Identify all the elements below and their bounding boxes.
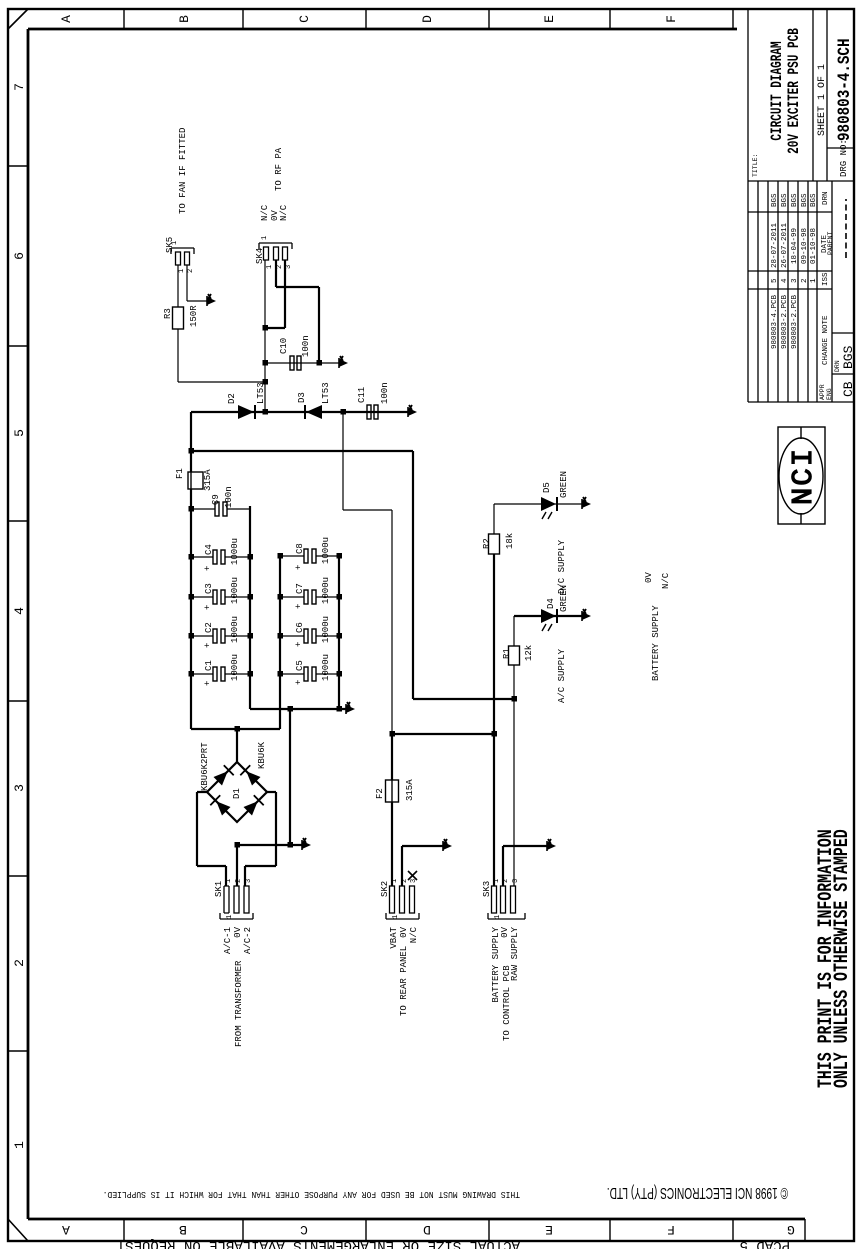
svg-text:+: + — [203, 643, 213, 648]
svg-text:PARENT: PARENT — [827, 231, 834, 255]
svg-text:2: 2 — [502, 879, 510, 883]
svg-text:E: E — [542, 15, 557, 23]
svg-text:BATTERY SUPPLY: BATTERY SUPPLY — [651, 605, 661, 681]
svg-text:2: 2 — [401, 879, 409, 883]
connector SK1 — [220, 886, 253, 919]
svg-text:+: + — [203, 681, 213, 686]
svg-text:SHEET 1 OF 1: SHEET 1 OF 1 — [817, 64, 828, 136]
svg-text:ENG: ENG — [826, 388, 833, 400]
svg-text:3: 3 — [791, 278, 799, 283]
junction +V rail at C4 — [189, 554, 195, 560]
connector SK5 — [171, 248, 194, 265]
svg-text:1: 1 — [391, 879, 399, 883]
svg-text:C3: C3 — [204, 583, 214, 594]
svg-text:315A: 315A — [405, 779, 415, 801]
svg-text:C5: C5 — [295, 660, 305, 671]
svg-text:315A: 315A — [203, 469, 213, 491]
svg-text:1000u: 1000u — [230, 538, 240, 565]
svg-text:1: 1 — [171, 241, 179, 245]
svg-text:1: 1 — [494, 915, 502, 919]
wire bridge diamond — [207, 762, 267, 822]
capacitor C8 — [304, 549, 316, 563]
junction bank2 0V rail at C6 — [337, 633, 343, 639]
svg-text:09-10-98: 09-10-98 — [801, 228, 809, 264]
junction VBAT line branch — [390, 731, 396, 737]
svg-text:1: 1 — [261, 236, 269, 240]
svg-text:C: C — [297, 15, 312, 23]
svg-text:3: 3 — [245, 879, 253, 883]
junction SK4 pin1 pin3 — [263, 325, 269, 331]
svg-text:2: 2 — [801, 278, 809, 283]
svg-text:12k: 12k — [524, 645, 534, 661]
svg-text:SK2: SK2 — [380, 881, 390, 897]
svg-text:1: 1 — [266, 265, 274, 269]
svg-text:3: 3 — [12, 784, 27, 792]
junction +V rail at C9 — [189, 506, 195, 512]
diode D3 (up) — [305, 405, 322, 419]
wires: thin — [178, 260, 582, 886]
svg-text:BATTERY SUPPLY: BATTERY SUPPLY — [491, 926, 501, 1002]
svg-text:KBU6K: KBU6K — [257, 741, 267, 769]
svg-text:2: 2 — [187, 269, 195, 273]
svg-text:01-10-98: 01-10-98 — [810, 228, 818, 264]
wire sk1 pin2 — [236, 845, 238, 886]
bridge D1 diode bottom-left — [244, 801, 258, 815]
junction bank2 +V rail at C6 — [278, 633, 284, 639]
0V power arrow at SK3 pin2 — [547, 839, 556, 851]
svg-text:G: G — [787, 1222, 795, 1237]
svg-text:SK3: SK3 — [482, 881, 492, 897]
junction D2 D3 node — [263, 409, 269, 415]
junction battery supply at R2 — [492, 731, 498, 737]
svg-text:F1: F1 — [175, 468, 185, 479]
svg-text:A/C-2: A/C-2 — [243, 927, 253, 954]
svg-text:+: + — [294, 604, 304, 609]
connector SK2 — [386, 886, 419, 919]
svg-text:GREEN: GREEN — [559, 471, 569, 498]
junction bridge minus to 0V link — [288, 842, 294, 848]
svg-text:+: + — [294, 680, 304, 685]
wire R1 bottom row to SK3 pin3 — [513, 616, 515, 886]
svg-text:A: A — [62, 1222, 70, 1237]
capacitor C3 — [213, 590, 225, 604]
svg-text:1: 1 — [493, 879, 501, 883]
svg-text:0V: 0V — [500, 926, 510, 937]
junction bank2 +V rail at C5 — [278, 671, 284, 677]
title block frame — [748, 9, 854, 402]
svg-text:ISS: ISS — [822, 272, 830, 286]
svg-text:SK1: SK1 — [214, 881, 224, 897]
resistor R1 — [509, 646, 520, 665]
wire sk4 pin2 — [276, 260, 319, 363]
svg-text:D3: D3 — [297, 392, 307, 403]
junction +V rail at C1 — [189, 671, 195, 677]
capacitor C6 — [304, 629, 316, 643]
LED D5 (down) — [541, 497, 557, 519]
svg-text:BGS: BGS — [781, 193, 789, 207]
0V power arrow at SK2 pin2 — [443, 839, 452, 851]
svg-text:C11: C11 — [357, 387, 367, 403]
svg-text:4: 4 — [781, 278, 789, 283]
junction C10 bottom — [317, 360, 323, 366]
junction +V rail at C2 — [189, 633, 195, 639]
junction bank2 +V rail at C8 — [278, 553, 284, 559]
diode D2 (down) — [238, 405, 255, 419]
svg-text:NCI: NCI — [787, 447, 820, 505]
schematic labels — [163, 128, 671, 897]
svg-text:1000u: 1000u — [321, 654, 331, 681]
margin texts left — [103, 1189, 520, 1200]
wire R3 drop — [178, 381, 265, 383]
bridge D1 diode top-left — [216, 801, 230, 815]
wire battery feed thick — [391, 734, 393, 886]
capacitor C4 — [213, 550, 225, 564]
svg-text:C1: C1 — [204, 660, 214, 671]
junction 0V drop minus link — [288, 706, 294, 712]
svg-text:TO RF PA: TO RF PA — [274, 147, 284, 191]
svg-text:C: C — [300, 1222, 308, 1237]
svg-text:TITLE:: TITLE: — [752, 154, 759, 177]
wire sk3 pin1 R2 row — [493, 554, 495, 886]
wire cap leads C5-C8 — [280, 556, 339, 674]
svg-text:PCAD 5: PCAD 5 — [740, 1237, 790, 1249]
svg-text:LT53: LT53 — [256, 382, 266, 404]
fuse F2 — [386, 780, 399, 802]
bridge D1 cathode bars — [210, 765, 263, 805]
0V power arrow at D5 — [582, 497, 591, 509]
svg-text:18-04-99: 18-04-99 — [791, 228, 799, 264]
connector SK4 — [259, 243, 292, 260]
NCI logo — [778, 427, 825, 524]
junction 0V rail at C1 — [248, 671, 254, 677]
zone letters right — [59, 15, 679, 23]
svg-text:980803-2.PCB: 980803-2.PCB — [781, 294, 789, 349]
svg-text:DRN: DRN — [822, 191, 830, 205]
svg-text:1: 1 — [178, 269, 186, 273]
wire rail corner to bridge + — [236, 729, 238, 762]
svg-text:SK4: SK4 — [255, 248, 265, 264]
wire R2 top lead to D5 — [494, 504, 582, 534]
svg-text:FROM TRANSFORMER: FROM TRANSFORMER — [234, 960, 244, 1047]
svg-text:C8: C8 — [295, 543, 305, 554]
svg-text:LT53: LT53 — [321, 382, 331, 404]
svg-text:1000u: 1000u — [321, 537, 331, 564]
svg-text:1: 1 — [810, 278, 818, 283]
svg-text:0V: 0V — [233, 926, 243, 937]
svg-text:C7: C7 — [295, 583, 305, 594]
svg-text:1: 1 — [226, 915, 234, 919]
svg-text:TO REAR PANEL: TO REAR PANEL — [399, 946, 409, 1016]
svg-text:C2: C2 — [204, 622, 214, 633]
svg-text:980803-2.PCB: 980803-2.PCB — [791, 294, 799, 349]
svg-text:DRG NO:: DRG NO: — [839, 139, 849, 177]
wire cap leads C1-C4 C9 — [191, 509, 250, 674]
svg-text:100n: 100n — [380, 382, 390, 404]
svg-text:BGS: BGS — [810, 193, 818, 207]
capacitor C5 — [304, 667, 316, 681]
svg-text:+: + — [203, 605, 213, 610]
svg-text:+: + — [203, 566, 213, 571]
wire sk4 pin3 — [266, 260, 285, 328]
svg-text:VBAT: VBAT — [389, 926, 399, 948]
wire bridge minus column — [237, 844, 302, 846]
svg-text:D2: D2 — [227, 393, 237, 404]
svg-text:20V EXCITER PSU PCB: 20V EXCITER PSU PCB — [786, 28, 803, 154]
wire bridge ac2 path — [245, 792, 276, 886]
wire sk5 pin1 R3 — [177, 265, 179, 382]
junction 0V rail at C4 — [248, 554, 254, 560]
0V power arrow at SK5 pin2 — [207, 294, 216, 306]
svg-text:+: + — [294, 565, 304, 570]
junction R3 to SK4 node — [263, 379, 269, 385]
svg-text:KBU6K2PRT: KBU6K2PRT — [200, 742, 210, 791]
capacitor C1 — [213, 667, 225, 681]
svg-text:2: 2 — [12, 959, 27, 967]
svg-text:BGS: BGS — [801, 193, 809, 207]
no-connect X on SK2 pin3 — [408, 871, 417, 880]
wire minus link — [289, 709, 291, 845]
svg-text:D: D — [423, 1222, 431, 1237]
svg-text:6: 6 — [12, 252, 27, 260]
svg-text:N/C: N/C — [409, 926, 419, 943]
capacitor C2 — [213, 629, 225, 643]
0V power arrow at cap bank rail — [346, 702, 355, 714]
svg-text:CB: CB — [841, 381, 856, 397]
junction raw supply at R1 — [512, 696, 518, 702]
wire sk2 pin2 stub — [402, 846, 443, 886]
svg-text:R2: R2 — [482, 538, 492, 549]
svg-text:18k: 18k — [505, 533, 515, 549]
wire main +V rail — [190, 412, 192, 729]
resistor R3 — [173, 307, 184, 329]
svg-text:3: 3 — [285, 265, 293, 269]
svg-text:B: B — [177, 15, 192, 23]
svg-text:5: 5 — [12, 429, 27, 437]
svg-text:1000u: 1000u — [230, 616, 240, 643]
svg-text:APPR: APPR — [819, 384, 826, 400]
fuse F1 — [188, 472, 203, 489]
junction +V rail to bridge — [235, 726, 241, 732]
wire bank1 bottom rail — [249, 506, 251, 709]
title block text — [771, 191, 830, 365]
junction bridge minus node — [235, 842, 241, 848]
wire R1 thick feed — [191, 451, 514, 699]
0V power arrow at bridge minus — [302, 838, 311, 850]
wire D4 drop — [514, 615, 582, 617]
wire bank2 bottom rail — [338, 556, 340, 709]
svg-text:BGS: BGS — [791, 193, 799, 207]
svg-text:1000u: 1000u — [230, 654, 240, 681]
svg-text:4: 4 — [12, 607, 27, 615]
svg-text:D1: D1 — [232, 788, 242, 799]
svg-text:980803-4.PCB: 980803-4.PCB — [771, 294, 779, 349]
svg-text:D/C SUPPLY: D/C SUPPLY — [557, 539, 567, 594]
svg-text:ACTUAL SIZE OR ENLARGEMENTS AV: ACTUAL SIZE OR ENLARGEMENTS AVAILABLE ON… — [117, 1237, 520, 1249]
svg-text:2: 2 — [235, 879, 243, 883]
svg-text:100n: 100n — [224, 486, 234, 508]
bridge D1 diode top-right — [214, 771, 228, 785]
svg-text:N/C: N/C — [279, 204, 289, 221]
svg-text:0V: 0V — [399, 926, 409, 937]
junction +V rail feed to R1 — [189, 448, 195, 454]
0V power arrow at C11 — [408, 405, 417, 417]
bridge D1 diode bottom-right — [246, 771, 260, 785]
svg-text:C10: C10 — [279, 338, 289, 354]
svg-text:CIRCUIT DIAGRAM: CIRCUIT DIAGRAM — [769, 41, 786, 140]
svg-text:F: F — [667, 1222, 675, 1237]
svg-text:980803-4.SCH: 980803-4.SCH — [833, 38, 854, 141]
wire bank1 bottom drop — [250, 708, 346, 710]
svg-text:© 1998 NCI ELECTRONICS (PTY): © 1998 NCI ELECTRONICS (PTY) LTD. — [607, 1184, 788, 1202]
resistor R2 — [489, 534, 500, 554]
wire bridge ac1 path — [197, 792, 226, 886]
wire C10 — [265, 362, 319, 364]
svg-text:3: 3 — [512, 879, 520, 883]
capacitor C9 — [215, 502, 227, 516]
svg-text:C4: C4 — [204, 544, 214, 555]
svg-text:A/C SUPPLY: A/C SUPPLY — [557, 648, 567, 703]
svg-text:TO FAN IF FITTED: TO FAN IF FITTED — [178, 128, 188, 214]
wire rail to bank2 top — [191, 556, 280, 729]
junction +V rail at C3 — [189, 594, 195, 600]
junction 0V drop at bank2 rail — [337, 706, 343, 712]
svg-text:R1: R1 — [502, 648, 512, 659]
connector SK3 — [488, 886, 525, 919]
wire sk4 pin1 node row — [264, 260, 266, 413]
svg-text:28-07-2011: 28-07-2011 — [771, 222, 779, 268]
svg-text:3: 3 — [410, 879, 418, 883]
svg-text:1: 1 — [12, 1141, 27, 1149]
junction C10 top — [263, 360, 269, 366]
svg-text:2: 2 — [276, 265, 284, 269]
svg-text:100n: 100n — [301, 335, 311, 357]
svg-text:+: + — [294, 642, 304, 647]
junction bank2 0V rail at C8 — [337, 553, 343, 559]
0V power arrow at C10 — [339, 356, 348, 368]
junction bank2 0V rail at C7 — [337, 594, 343, 600]
zone numbers top — [12, 83, 27, 1149]
wires: main thick — [191, 260, 582, 886]
svg-text:C9: C9 — [211, 494, 221, 505]
svg-text:BGS: BGS — [771, 193, 779, 207]
wire sk3 pin2 stub — [503, 846, 547, 886]
svg-text:D4: D4 — [546, 598, 556, 609]
0V power arrow at D4 — [582, 609, 591, 621]
zone letters left (rotated) — [62, 1222, 795, 1237]
capacitor C10 — [290, 356, 301, 370]
svg-text:F2: F2 — [375, 788, 385, 799]
svg-text:CHANGE NOTE: CHANGE NOTE — [822, 315, 830, 365]
wire battery feed from D3 node (thin staircase) — [343, 412, 392, 734]
svg-text:5: 5 — [771, 278, 779, 283]
svg-text:BGS: BGS — [841, 345, 856, 369]
wire sk5 pin2 stub — [187, 265, 207, 301]
LED D4 (down) — [541, 609, 557, 631]
capacitor C7 — [304, 590, 316, 604]
svg-text:1000u: 1000u — [321, 577, 331, 604]
svg-text:1000u: 1000u — [321, 616, 331, 643]
wire x515 branch — [392, 733, 494, 735]
svg-text:26-07-2011: 26-07-2011 — [781, 222, 789, 268]
svg-text:7: 7 — [12, 83, 27, 91]
svg-text:THIS DRAWING MUST NOT BE USED: THIS DRAWING MUST NOT BE USED FOR ANY PU… — [103, 1189, 520, 1200]
svg-text:D: D — [420, 15, 435, 23]
wire C10 0V stub — [319, 362, 339, 364]
svg-text:1: 1 — [392, 915, 400, 919]
junction 0V rail at C2 — [248, 633, 254, 639]
wire D2 D3 C11 column — [191, 411, 408, 413]
svg-text:R3: R3 — [163, 308, 173, 319]
svg-text:1000u: 1000u — [230, 577, 240, 604]
svg-text:F: F — [664, 15, 679, 23]
svg-text:N/C: N/C — [661, 572, 671, 589]
junction 0V rail at C3 — [248, 594, 254, 600]
capacitor C11 — [367, 405, 378, 419]
svg-text:0V: 0V — [644, 572, 654, 583]
svg-text:A: A — [59, 15, 74, 23]
svg-text:C6: C6 — [295, 622, 305, 633]
junction bank2 +V rail at C7 — [278, 594, 284, 600]
svg-text:TO CONTROL PCB: TO CONTROL PCB — [502, 965, 512, 1041]
wire R1 dot link — [413, 698, 514, 700]
junction bank2 0V rail at C5 — [337, 671, 343, 677]
svg-text:D5: D5 — [542, 482, 552, 493]
svg-text:ONLY UNLESS OTHERWISE STAMPED: ONLY UNLESS OTHERWISE STAMPED — [831, 829, 854, 1088]
svg-text:150R: 150R — [189, 305, 199, 327]
svg-text:B: B — [179, 1222, 187, 1237]
svg-text:N/C: N/C — [260, 204, 270, 221]
stamped note — [815, 829, 854, 1088]
junction D3 C11 node — [341, 409, 347, 415]
svg-text:1: 1 — [225, 879, 233, 883]
svg-text:E: E — [545, 1222, 553, 1237]
svg-text:DRN: DRN — [834, 360, 841, 372]
svg-text:A/C-1: A/C-1 — [223, 927, 233, 954]
